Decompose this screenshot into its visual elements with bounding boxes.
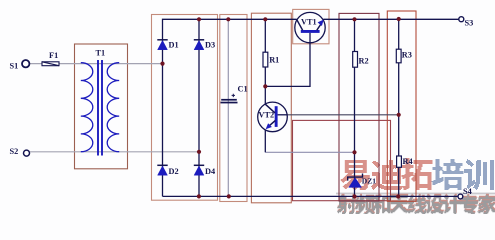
terminal S1 bbox=[22, 60, 29, 67]
svg-text:DZ1: DZ1 bbox=[362, 177, 376, 186]
svg-text:S4: S4 bbox=[463, 187, 472, 196]
resistor R1 bbox=[263, 52, 279, 67]
terminal S2 bbox=[24, 150, 30, 156]
svg-text:S3: S3 bbox=[465, 19, 474, 28]
selection box around T1 bbox=[75, 44, 128, 169]
watermark slogan text 射频和天线设计专家 bbox=[337, 194, 495, 215]
wire R1/VT2 column bbox=[264, 19, 266, 104]
svg-text:R1: R1 bbox=[269, 55, 279, 64]
wire bottom rail to S4 bbox=[163, 195, 459, 197]
wire VT2 emitter lead down bbox=[264, 130, 266, 153]
wire top rail right of VT1 to S3 bbox=[323, 18, 458, 20]
svg-text:D1: D1 bbox=[169, 41, 179, 50]
svg-text:D2: D2 bbox=[169, 167, 179, 176]
selection box around D1-D4 bbox=[152, 15, 218, 201]
svg-text:VT2: VT2 bbox=[259, 111, 275, 120]
wire S2 to T1 to D3-D4 node bbox=[30, 151, 199, 153]
svg-text:R3: R3 bbox=[402, 51, 412, 60]
transistor VT1 bbox=[295, 12, 325, 42]
svg-text:F1: F1 bbox=[49, 51, 58, 60]
transformer T1 bbox=[81, 49, 119, 156]
diode D4 bbox=[194, 165, 215, 176]
selection box around DZ1 area bbox=[293, 120, 391, 200]
selection box around C1 bbox=[220, 15, 247, 202]
resistor R3 bbox=[396, 49, 412, 63]
diode D2 bbox=[157, 165, 178, 176]
svg-text:R2: R2 bbox=[359, 57, 369, 66]
zener diode DZ1 bbox=[348, 174, 377, 188]
resistor R4 bbox=[397, 156, 413, 167]
wire S1 to F1 to T1 to D1-D2 node bbox=[29, 63, 162, 65]
watermark underline rule bbox=[336, 193, 495, 195]
svg-text:R4: R4 bbox=[403, 157, 413, 166]
node C1 bottom bbox=[227, 194, 231, 198]
wire VT2 base to R3-R4 node bbox=[287, 114, 399, 116]
node R2 top bbox=[352, 17, 356, 21]
node DZ1 bottom bbox=[353, 194, 357, 198]
selection box around R3/R4 bbox=[387, 11, 416, 201]
wire R2/DZ1 column bbox=[354, 19, 356, 196]
node R3-R4 / VT2 base bbox=[397, 113, 401, 117]
terminal S3 bbox=[459, 17, 464, 22]
wire D3-D4 column bbox=[198, 19, 200, 196]
node D4 bottom bbox=[197, 194, 201, 198]
node R3 top bbox=[397, 17, 401, 21]
watermark logo text 易迪拓培训 bbox=[341, 158, 494, 190]
transistor VT2 bbox=[258, 102, 288, 132]
svg-text:T1: T1 bbox=[96, 49, 106, 58]
node R1 top bbox=[263, 17, 267, 21]
svg-text:C1: C1 bbox=[238, 85, 248, 94]
node R4 bottom bbox=[396, 194, 400, 198]
diode D3 bbox=[194, 40, 215, 50]
node D3-D4 / T1 bbox=[197, 150, 201, 154]
wire VT1 base down and left to R1 node bbox=[265, 43, 310, 86]
svg-text:VT1: VT1 bbox=[301, 18, 317, 27]
wire R3/R4 column bbox=[398, 19, 400, 196]
svg-text:D3: D3 bbox=[205, 41, 215, 50]
selection box around R2 bbox=[339, 13, 379, 201]
resistor R2 bbox=[353, 52, 369, 68]
selection box around VT1 bbox=[293, 9, 329, 43]
node D3 top bbox=[197, 17, 201, 21]
node C1 top bbox=[226, 17, 230, 21]
node R2/DZ1/VT2 emitter bbox=[352, 150, 356, 154]
wire VT2 emitter to DZ1 node bbox=[265, 151, 354, 153]
svg-text:S2: S2 bbox=[10, 147, 19, 156]
terminal S4 bbox=[458, 194, 463, 199]
svg-text:D4: D4 bbox=[205, 167, 215, 176]
fuse F1 bbox=[42, 51, 59, 66]
svg-text:S1: S1 bbox=[10, 62, 19, 71]
node D1-D2 / T1 bbox=[160, 62, 164, 66]
wire top rail (positive) bbox=[163, 19, 297, 196]
capacitor C1 bbox=[221, 85, 248, 104]
diode D1 bbox=[157, 40, 178, 50]
selection box around R1/VT2 bbox=[251, 13, 291, 203]
wire C1 vertical net bbox=[227, 19, 229, 196]
node R1/VT1 base/VT2 collector bbox=[263, 84, 267, 88]
